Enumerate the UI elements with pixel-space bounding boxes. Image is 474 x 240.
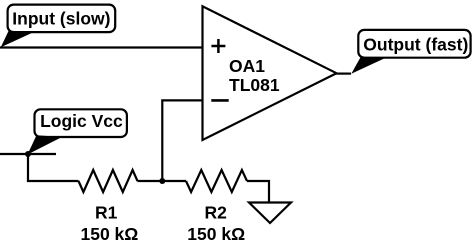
callout Output (fast): box (358, 30, 470, 58)
wire: feedback vertical segment from - input down to R1/R2 junction (161, 100, 163, 181)
node: junction dot between R1 and R2 (159, 178, 165, 184)
svg-text:TL081: TL081 (229, 75, 280, 95)
callout Logic Vcc: box (35, 109, 127, 137)
ground symbol (249, 203, 291, 224)
wire: logic Vcc horizontal stub at left (0, 153, 56, 155)
wire: input net to op-amp + input (0, 46, 203, 48)
op-amp + input symbol (211, 39, 225, 53)
resistor R2 (zigzag) (186, 170, 247, 192)
svg-text:150 kΩ: 150 kΩ (80, 224, 138, 240)
svg-text:Output (fast): Output (fast) (363, 34, 468, 54)
callout Output (fast): tail (351, 57, 386, 74)
wire: R1 left lead (27, 180, 79, 182)
node: junction dot at Logic Vcc tap (25, 151, 31, 157)
svg-text:Input (slow): Input (slow) (12, 8, 110, 28)
callout Logic Vcc: tail (28, 135, 63, 154)
wire: op-amp output stub (335, 72, 351, 74)
svg-text:R2: R2 (205, 202, 228, 222)
wire: segment between R1 and R2 (138, 180, 187, 182)
callout Input (slow): tail (1, 31, 35, 47)
svg-text:OA1: OA1 (229, 56, 265, 76)
wire: vertical from Vcc node down to R1 (27, 154, 29, 181)
svg-text:Logic Vcc: Logic Vcc (40, 111, 123, 131)
svg-text:150 kΩ: 150 kΩ (187, 224, 245, 240)
svg-text:R1: R1 (95, 202, 118, 222)
op-amp U1 triangle (203, 6, 337, 140)
wire: op-amp - input horizontal segment (161, 99, 203, 101)
wire: R2 right lead to ground drop (247, 181, 269, 203)
resistor R1 (zigzag) (79, 170, 138, 192)
op-amp - input symbol (211, 99, 228, 102)
callout Input (slow): box (8, 5, 116, 32)
